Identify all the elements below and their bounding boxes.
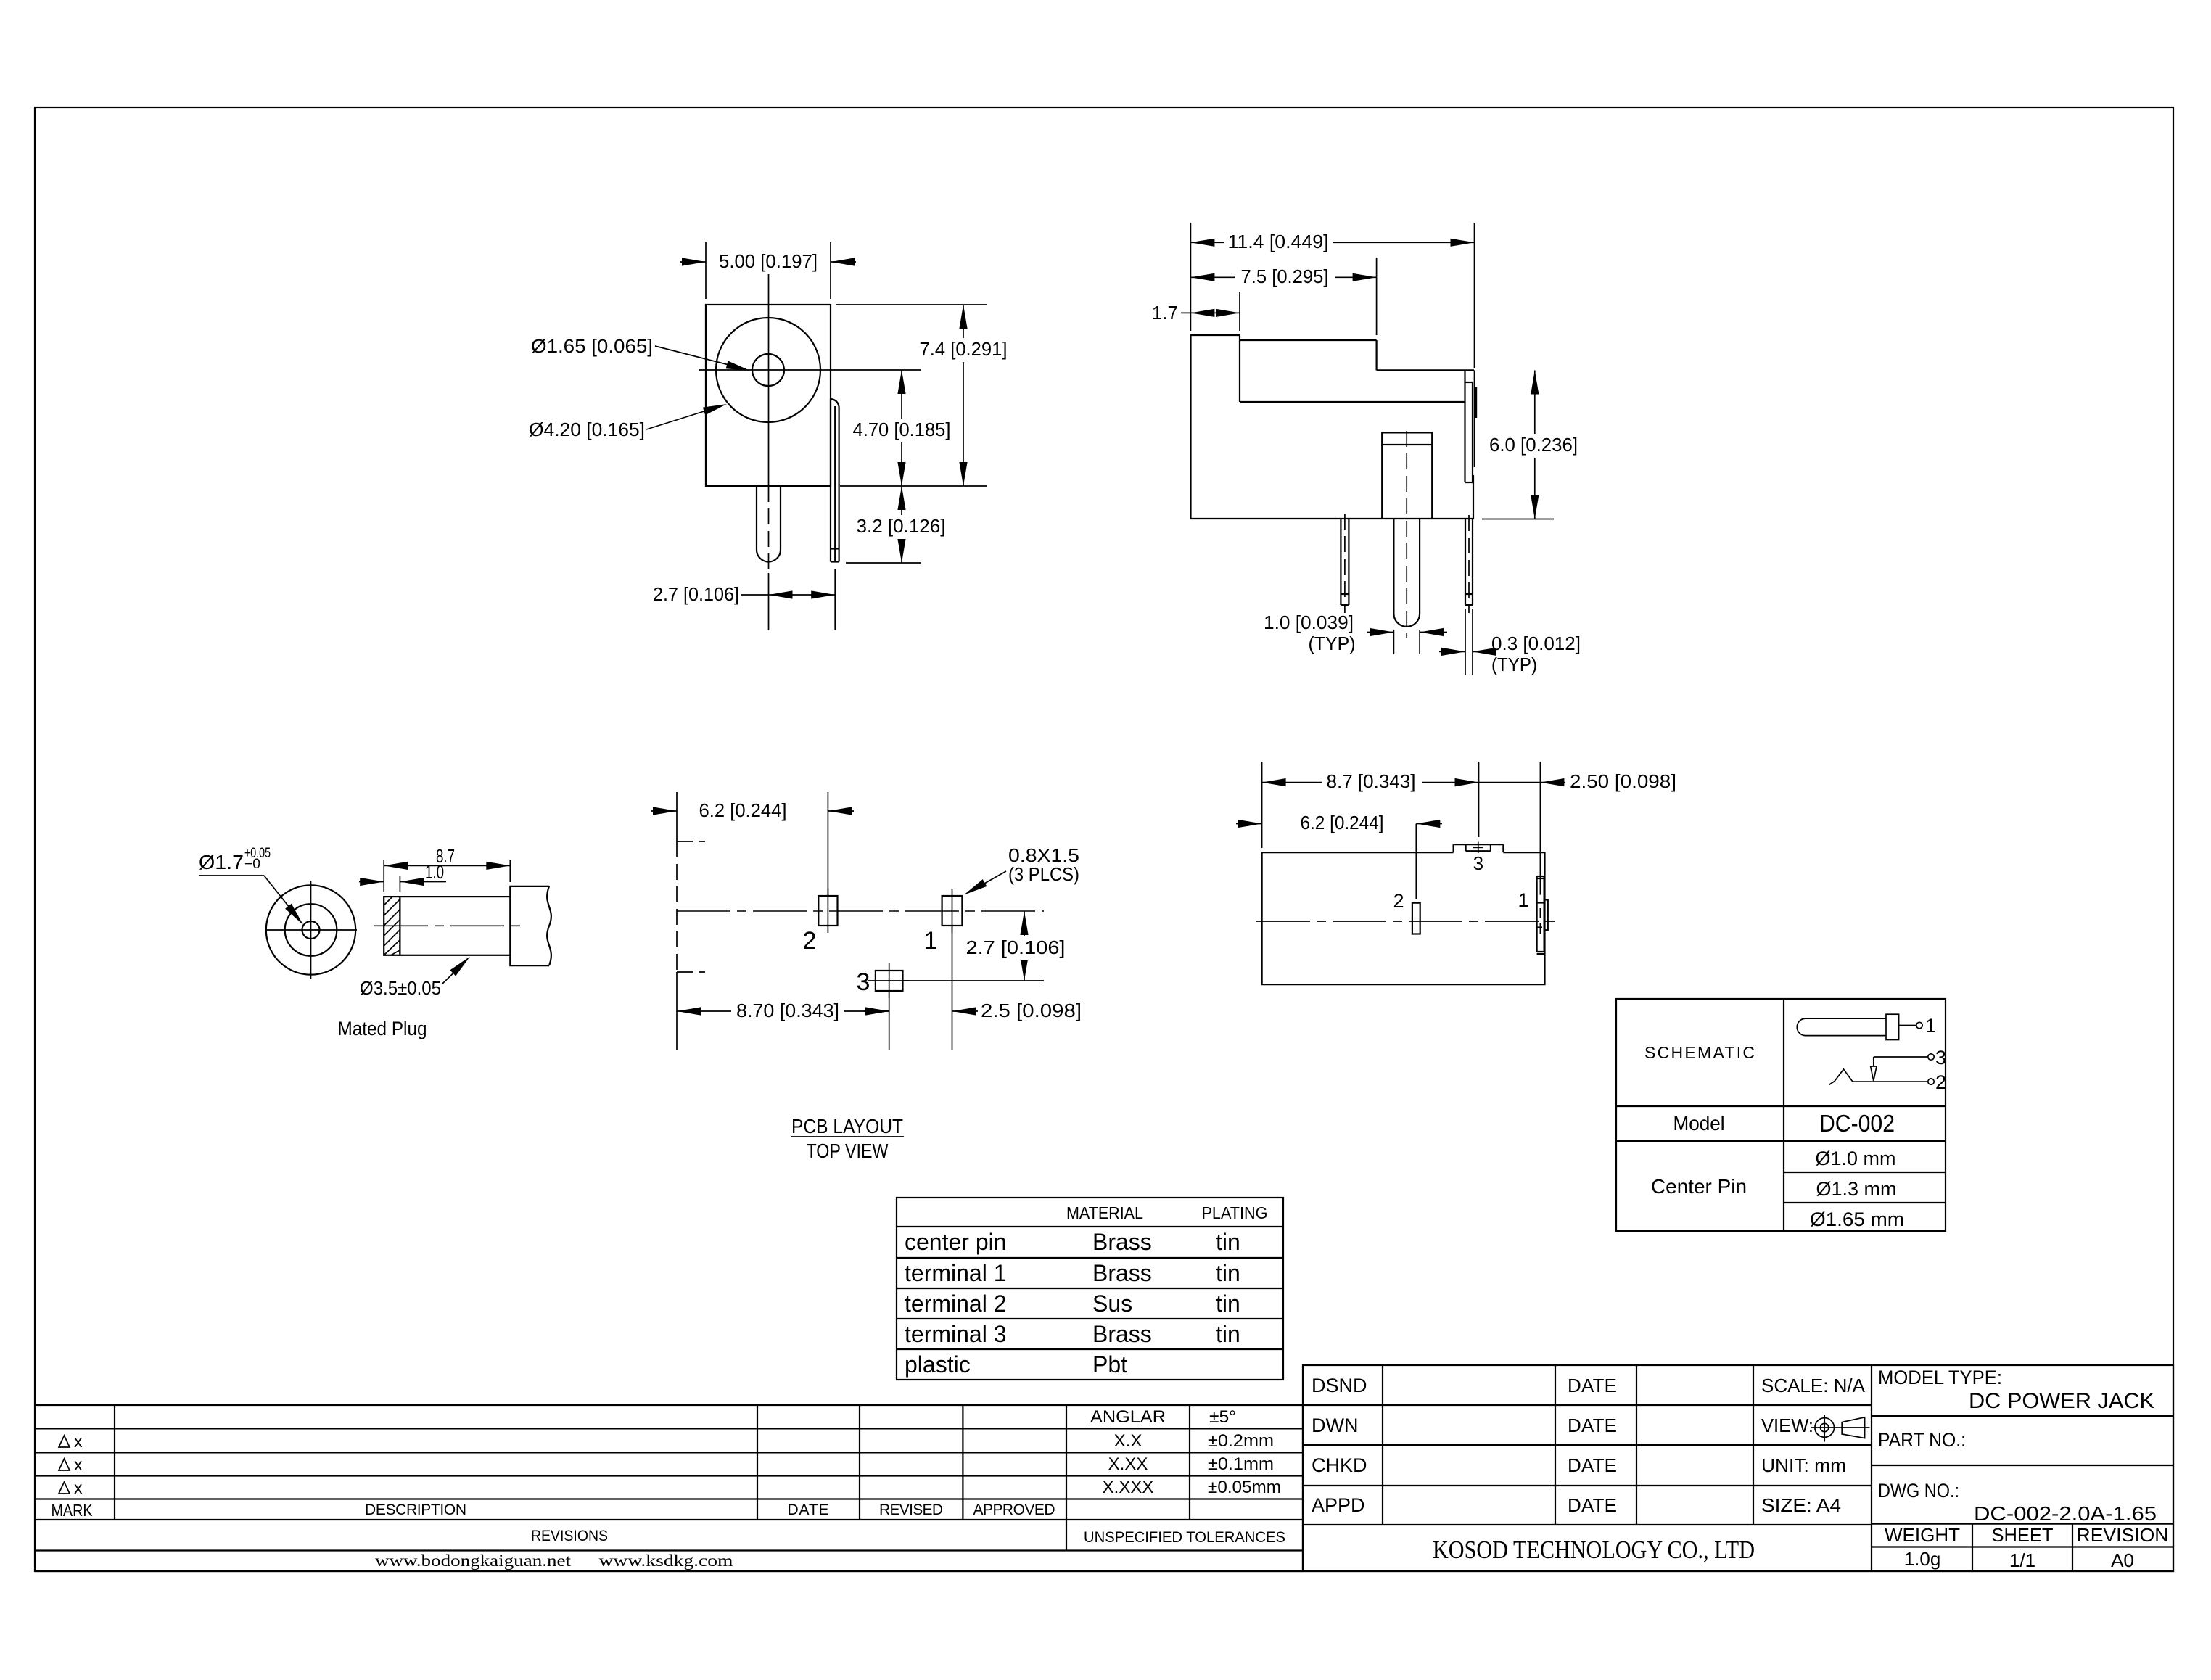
pcb dimension 2.5 [0.098] — [864, 926, 1082, 1050]
svg-text:DC POWER JACK: DC POWER JACK — [1969, 1389, 2154, 1413]
schematic table: Model row — [1673, 1110, 1895, 1137]
dimension 1.0 [0.039] (TYP) center pin width — [1264, 612, 1447, 654]
bottom view: jack body outline — [1262, 852, 1545, 984]
svg-text:±5°: ±5° — [1209, 1407, 1236, 1427]
svg-text:Brass: Brass — [1092, 1260, 1152, 1286]
svg-text:−0: −0 — [244, 857, 260, 872]
svg-text:1/1: 1/1 — [2009, 1549, 2035, 1571]
svg-text:terminal 3: terminal 3 — [905, 1321, 1007, 1347]
svg-text:1: 1 — [924, 927, 938, 955]
schematic: pin 1 wire and node — [1899, 1015, 1936, 1037]
svg-text:DSND: DSND — [1312, 1375, 1367, 1396]
svg-text:tin: tin — [1216, 1229, 1240, 1255]
svg-text:2: 2 — [1393, 890, 1404, 912]
dimension 3.2 [0.126] — [846, 486, 952, 563]
mated plug dimension 1.0 — [359, 861, 446, 892]
svg-text:REVISION: REVISION — [2077, 1524, 2169, 1546]
svg-text:center pin: center pin — [905, 1229, 1007, 1255]
schematic: pin 3 wire, node and center contact — [1871, 1047, 1946, 1081]
svg-text:www.bodongkaiguan.net: www.bodongkaiguan.net — [375, 1552, 572, 1570]
title block frame — [1303, 1365, 2173, 1571]
svg-text:Brass: Brass — [1092, 1321, 1152, 1347]
pcb layout: horizontal centerline — [677, 910, 1044, 912]
title block: CHKD row — [1312, 1454, 1846, 1476]
svg-text:(3 PLCS): (3 PLCS) — [1008, 863, 1079, 885]
svg-text:0.3 [0.012]: 0.3 [0.012] — [1491, 633, 1581, 654]
svg-text:SIZE: A4: SIZE: A4 — [1761, 1494, 1841, 1516]
svg-text:±0.05mm: ±0.05mm — [1208, 1478, 1281, 1497]
dimension 7.5 [0.295] — [1190, 258, 1376, 335]
bottom view: terminal 1 — [1537, 876, 1548, 954]
bottom view: terminal 3 plateau and tab — [1454, 842, 1504, 854]
svg-text:DATE: DATE — [1568, 1454, 1617, 1476]
mated plug: barrel side view with hatch — [384, 897, 510, 955]
revision mark row 2: triangle x — [59, 1455, 83, 1474]
svg-text:APPROVED: APPROVED — [973, 1502, 1055, 1518]
schematic: pin 2 wire, node and spring contact — [1829, 1069, 1947, 1093]
svg-text:PART NO.:: PART NO.: — [1878, 1429, 1966, 1451]
revisions header row labels — [52, 1501, 1055, 1520]
dimension 2.7 [0.106] (front view, pin pitch) — [653, 569, 835, 630]
svg-text:1.7: 1.7 — [1152, 302, 1178, 324]
front view: horizontal centerline — [699, 369, 921, 371]
svg-text:PCB LAYOUT: PCB LAYOUT — [791, 1115, 903, 1137]
title block: first angle projection symbol — [1811, 1415, 1870, 1442]
side view: terminal 2 pin (left) — [1341, 514, 1349, 613]
dimension 11.4 [0.449] — [1190, 223, 1474, 368]
pcb layout: pad 2 — [818, 889, 837, 933]
revisions table frame — [35, 1405, 1303, 1571]
svg-text:3: 3 — [857, 968, 870, 996]
schematic table frame — [1616, 999, 1946, 1231]
svg-text:Ø1.0 mm: Ø1.0 mm — [1816, 1148, 1896, 1169]
side view: terminal 1 pin (right) — [1465, 515, 1473, 613]
dimension 0.3 [0.012] (TYP) terminal thickness — [1439, 609, 1581, 675]
svg-text:x: x — [74, 1432, 83, 1451]
svg-text:2.50 [0.098]: 2.50 [0.098] — [1570, 770, 1676, 792]
revision mark row 1: triangle x — [59, 1432, 83, 1451]
svg-text:DATE: DATE — [1568, 1375, 1617, 1396]
material table header — [1066, 1203, 1268, 1222]
front view: vertical centerline — [768, 274, 770, 630]
website urls — [375, 1552, 733, 1570]
svg-text:Ø3.5±0.05: Ø3.5±0.05 — [360, 977, 441, 999]
dimension 1.7 — [1152, 292, 1240, 331]
svg-text:www.ksdkg.com: www.ksdkg.com — [599, 1552, 733, 1570]
mated plug: centerline — [374, 925, 522, 926]
caption PCB LAYOUT — [791, 1115, 904, 1137]
svg-text:3: 3 — [1473, 852, 1483, 874]
material table frame — [897, 1198, 1283, 1380]
mated plug: end view circles — [266, 881, 357, 979]
title block: DWN row — [1312, 1415, 1813, 1436]
front view: flat terminal (pin 1) — [831, 399, 839, 562]
svg-text:DWN: DWN — [1312, 1415, 1358, 1436]
svg-text:1: 1 — [1518, 889, 1528, 911]
svg-text:ANGLAR: ANGLAR — [1090, 1407, 1166, 1427]
svg-text:7.5 [0.295]: 7.5 [0.295] — [1241, 265, 1329, 287]
svg-text:4.70 [0.185]: 4.70 [0.185] — [853, 419, 951, 440]
svg-text:3: 3 — [1935, 1047, 1946, 1068]
front view: center pin hole circle — [752, 354, 784, 386]
tolerance column labels — [1090, 1407, 1166, 1497]
svg-text:2.7 [0.106]: 2.7 [0.106] — [653, 583, 739, 605]
svg-text:UNIT: mm: UNIT: mm — [1761, 1454, 1846, 1476]
svg-text:2.7 [0.106]: 2.7 [0.106] — [966, 936, 1066, 958]
svg-text:CHKD: CHKD — [1312, 1454, 1367, 1476]
dimension 7.4 [0.291] — [836, 305, 1013, 486]
side view: center pin holder inside body — [1382, 432, 1432, 519]
pcb dimension 8.70 [0.343] — [677, 991, 889, 1050]
svg-text:6.2 [0.244]: 6.2 [0.244] — [1301, 812, 1384, 833]
svg-text:X.XXX: X.XXX — [1103, 1478, 1154, 1497]
svg-text:terminal 1: terminal 1 — [905, 1260, 1007, 1286]
material table row: center pin — [905, 1229, 1240, 1255]
pcb dimension 2.7 [0.106] — [903, 911, 1069, 981]
material table row: terminal 1 — [905, 1260, 1240, 1286]
pcb layout: left reference line — [677, 792, 705, 1050]
svg-text:DC-002: DC-002 — [1819, 1110, 1895, 1137]
material table row: terminal 3 — [905, 1321, 1240, 1347]
svg-text:DWG NO.:: DWG NO.: — [1878, 1480, 1959, 1502]
svg-text:6.0 [0.236]: 6.0 [0.236] — [1489, 434, 1578, 456]
svg-text:1: 1 — [1925, 1015, 1936, 1037]
bottom dimension 6.2 [0.244] — [1236, 812, 1442, 899]
svg-text:SCHEMATIC: SCHEMATIC — [1644, 1043, 1755, 1062]
bottom view: horizontal centerline — [1256, 921, 1560, 922]
mated plug: cable body with break line — [510, 886, 551, 965]
svg-text:APPD: APPD — [1312, 1494, 1365, 1516]
svg-text:VIEW:: VIEW: — [1761, 1415, 1813, 1436]
svg-text:±0.2mm: ±0.2mm — [1208, 1431, 1274, 1451]
svg-text:Mated Plug: Mated Plug — [338, 1018, 427, 1039]
svg-text:(TYP): (TYP) — [1491, 654, 1537, 675]
bottom dimension 8.7 [0.343] — [1262, 762, 1479, 848]
schematic table: Center Pin rows — [1651, 1148, 1904, 1230]
material table row: plastic — [905, 1351, 1127, 1378]
svg-text:terminal 2: terminal 2 — [905, 1290, 1007, 1317]
svg-text:A0: A0 — [2111, 1549, 2134, 1571]
svg-text:WEIGHT: WEIGHT — [1885, 1524, 1960, 1546]
title block: weight sheet revision values — [1904, 1548, 2134, 1571]
svg-text:KOSOD TECHNOLOGY CO., LTD: KOSOD TECHNOLOGY CO., LTD — [1433, 1536, 1755, 1564]
title block: MODEL TYPE — [1878, 1367, 2154, 1413]
svg-text:6.2 [0.244]: 6.2 [0.244] — [699, 799, 787, 821]
leader label Ø4.20 [0.165] — [529, 400, 728, 440]
svg-text:TOP VIEW: TOP VIEW — [807, 1140, 889, 1162]
svg-text:plastic: plastic — [905, 1351, 971, 1378]
mated plug dimension 8.7 — [384, 845, 510, 892]
front view: bushing outer circle — [716, 318, 820, 422]
dimension 4.70 [0.185] — [849, 370, 955, 486]
svg-text:tin: tin — [1216, 1290, 1240, 1317]
dimension 6.0 [0.236] — [1482, 371, 1584, 519]
svg-text:2: 2 — [1935, 1071, 1946, 1093]
material table row: terminal 2 — [905, 1290, 1240, 1317]
svg-text:X.XX: X.XX — [1108, 1454, 1148, 1474]
svg-text:x: x — [74, 1478, 83, 1497]
side view: center pin (below body) — [1393, 519, 1420, 627]
svg-text:REVISIONS: REVISIONS — [531, 1528, 608, 1544]
svg-text:Pbt: Pbt — [1092, 1351, 1127, 1378]
bottom view: terminal 2 — [1412, 903, 1420, 934]
svg-text:2.5 [0.098]: 2.5 [0.098] — [981, 1000, 1082, 1021]
bottom dimension 2.50 [0.098] — [1455, 762, 1677, 895]
svg-text:Sus: Sus — [1092, 1290, 1132, 1317]
svg-text:±0.1mm: ±0.1mm — [1208, 1454, 1274, 1474]
title block: WEIGHT SHEET REVISION headers — [1885, 1524, 2169, 1546]
svg-text:REVISED: REVISED — [879, 1502, 943, 1518]
svg-text:tin: tin — [1216, 1321, 1240, 1347]
svg-text:5.00 [0.197]: 5.00 [0.197] — [719, 250, 818, 272]
pcb dimension 6.2 [0.244] — [651, 792, 854, 896]
svg-text:Center Pin: Center Pin — [1651, 1175, 1747, 1198]
svg-text:11.4 [0.449]: 11.4 [0.449] — [1228, 231, 1329, 252]
tolerance values — [1208, 1407, 1281, 1497]
title block: APPD row — [1312, 1494, 1841, 1516]
svg-text:1.0: 1.0 — [425, 861, 444, 883]
svg-text:Brass: Brass — [1092, 1229, 1152, 1255]
svg-text:DC-002-2.0A-1.65: DC-002-2.0A-1.65 — [1974, 1502, 2157, 1525]
svg-text:Ø4.20 [0.165]: Ø4.20 [0.165] — [529, 419, 645, 440]
title block: DWG NO — [1878, 1480, 2157, 1525]
svg-text:7.4 [0.291]: 7.4 [0.291] — [920, 338, 1008, 360]
svg-text:8.7 [0.343]: 8.7 [0.343] — [1327, 770, 1416, 792]
svg-text:1.0g: 1.0g — [1904, 1548, 1941, 1570]
svg-text:DATE: DATE — [1568, 1494, 1617, 1516]
svg-text:tin: tin — [1216, 1260, 1240, 1286]
dimension 5.00 [0.197] — [680, 242, 856, 299]
side view: flat terminal (pin 1) exiting right side — [1465, 370, 1476, 482]
svg-text:MODEL TYPE:: MODEL TYPE: — [1878, 1367, 2002, 1388]
svg-text:Ø1.7: Ø1.7 — [199, 851, 244, 873]
side view: center pin centerline — [1406, 431, 1407, 638]
pcb leader 0.8X1.5 (3 PLCS) — [962, 844, 1079, 898]
svg-text:2: 2 — [803, 927, 817, 955]
svg-text:SCALE: N/A: SCALE: N/A — [1761, 1375, 1866, 1396]
svg-text:MATERIAL: MATERIAL — [1066, 1203, 1143, 1222]
svg-text:UNSPECIFIED TOLERANCES: UNSPECIFIED TOLERANCES — [1084, 1529, 1285, 1546]
revision mark row 3: triangle x — [59, 1478, 83, 1497]
svg-text:Ø1.3 mm: Ø1.3 mm — [1816, 1178, 1897, 1200]
svg-text:8.70 [0.343]: 8.70 [0.343] — [736, 1000, 839, 1021]
side view: jack body outline — [1191, 335, 1475, 519]
svg-text:1.0 [0.039]: 1.0 [0.039] — [1264, 612, 1354, 633]
pcb layout: pad 3 — [868, 963, 910, 998]
mated plug leader Ø3.5±0.05 — [360, 953, 473, 999]
svg-text:Ø1.65 mm: Ø1.65 mm — [1810, 1208, 1904, 1230]
svg-text:X.X: X.X — [1114, 1431, 1142, 1451]
svg-text:3.2 [0.126]: 3.2 [0.126] — [857, 515, 946, 537]
svg-text:Ø1.65 [0.065]: Ø1.65 [0.065] — [531, 335, 653, 357]
svg-text:Model: Model — [1673, 1112, 1725, 1135]
title block: DSND row — [1312, 1375, 1866, 1396]
svg-text:DATE: DATE — [1568, 1415, 1617, 1436]
svg-text:DATE: DATE — [788, 1502, 829, 1518]
leader label Ø1.65 [0.065] — [531, 335, 751, 374]
front view: jack body outline — [706, 305, 831, 486]
svg-text:(TYP): (TYP) — [1309, 633, 1356, 654]
svg-text:MARK: MARK — [52, 1501, 94, 1520]
svg-text:PLATING: PLATING — [1202, 1203, 1268, 1222]
pcb layout: pad 1 — [942, 889, 963, 933]
schematic symbol: plug barrel — [1797, 1014, 1898, 1039]
svg-text:SHEET: SHEET — [1992, 1524, 2054, 1546]
mated plug: leader label Ø1.7 +0.05/-0 — [199, 846, 306, 927]
svg-text:DESCRIPTION: DESCRIPTION — [365, 1502, 466, 1518]
front view: center pin (pin 3) — [757, 486, 781, 561]
svg-text:x: x — [74, 1455, 83, 1474]
